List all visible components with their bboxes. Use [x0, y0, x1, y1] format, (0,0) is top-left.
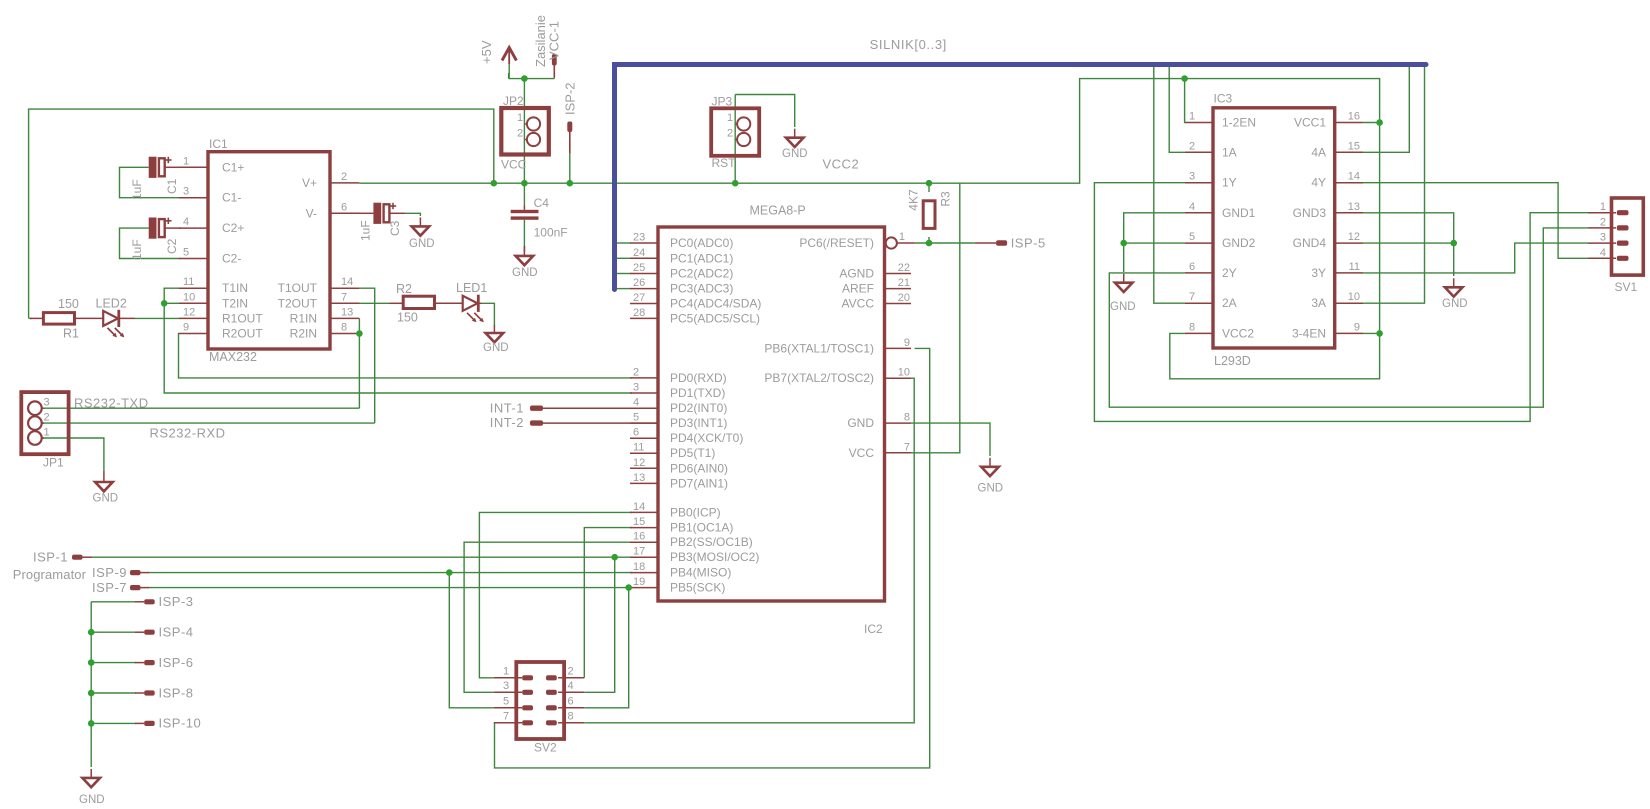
junction VCC rail at JP3: [732, 180, 739, 187]
capacitor C2: [149, 218, 157, 239]
svg-text:7: 7: [341, 291, 347, 303]
svg-text:1uF: 1uF: [359, 220, 373, 241]
svg-text:C1+: C1+: [222, 160, 244, 174]
svg-text:GND: GND: [483, 342, 509, 354]
svg-text:R1IN: R1IN: [290, 311, 317, 325]
SV1 pin stubs and contacts: [1588, 212, 1616, 214]
svg-text:2: 2: [517, 128, 523, 140]
wire C1 negative jog: [120, 167, 181, 197]
svg-text:PB4(MISO): PB4(MISO): [670, 566, 731, 580]
ground left of IC3: [1123, 274, 1125, 283]
ground for JP3: [794, 129, 796, 138]
wire T1IN T2IN tie to PD1: [164, 288, 632, 393]
svg-text:16: 16: [1348, 111, 1360, 123]
wire R2OUT to PD0: [179, 334, 633, 378]
svg-text:3: 3: [633, 382, 639, 394]
svg-text:1Y: 1Y: [1222, 176, 1237, 190]
svg-text:PD4(XCK/T0): PD4(XCK/T0): [670, 431, 743, 445]
ground for C3: [419, 217, 421, 226]
junction PB4/ISP-9/SV2.5: [446, 569, 453, 576]
op-amp IC2 MEGA8-P body: [658, 227, 885, 601]
svg-text:INT-1: INT-1: [490, 400, 524, 415]
wire ISP-8 tap: [91, 692, 136, 694]
wire PB0 to SV2 pin1: [479, 512, 632, 677]
svg-text:PB6(XTAL1/TOSC1): PB6(XTAL1/TOSC1): [764, 341, 874, 355]
svg-text:2: 2: [341, 171, 347, 183]
svg-text:28: 28: [633, 307, 645, 319]
svg-text:C2-: C2-: [222, 252, 241, 266]
svg-text:C1: C1: [165, 178, 179, 194]
svg-text:11: 11: [183, 276, 194, 288]
IC2 pin 1 PC6(/RESET) with bubble: [886, 237, 897, 248]
wire PB1 to SV2 pin2: [584, 528, 632, 678]
svg-text:4: 4: [633, 397, 639, 409]
svg-text:8: 8: [568, 710, 574, 722]
svg-text:9: 9: [1354, 321, 1360, 333]
svg-text:4: 4: [1600, 247, 1606, 259]
wire VCC left loop from R1 net to junction: [29, 109, 494, 318]
svg-text:12: 12: [633, 457, 645, 469]
svg-text:ISP-7: ISP-7: [92, 580, 127, 595]
pin INT-1: [530, 406, 543, 411]
svg-text:PD3(INT1): PD3(INT1): [670, 416, 727, 430]
svg-text:C3: C3: [388, 220, 402, 236]
svg-text:24: 24: [633, 247, 645, 259]
op-amp IC3 L293D body: [1213, 108, 1335, 348]
svg-text:7: 7: [503, 710, 509, 722]
svg-text:R1OUT: R1OUT: [222, 311, 263, 325]
svg-text:14: 14: [633, 501, 645, 513]
svg-text:2: 2: [727, 128, 733, 140]
svg-text:9: 9: [904, 337, 910, 349]
svg-text:2Y: 2Y: [1222, 266, 1237, 280]
svg-text:VCC2: VCC2: [823, 157, 860, 172]
svg-text:V-: V-: [306, 206, 317, 220]
svg-text:LED2: LED2: [96, 297, 127, 311]
pin ISP-9: [130, 570, 141, 575]
svg-text:ISP-10: ISP-10: [159, 716, 202, 731]
svg-text:2: 2: [1600, 216, 1606, 228]
svg-text:15: 15: [1348, 140, 1360, 152]
junction IC3 VCC1: [1376, 119, 1383, 126]
pin ISP-6: [135, 662, 144, 664]
wire SV2 pin5 riser to PB4: [449, 573, 494, 708]
svg-text:PB5(SCK): PB5(SCK): [670, 581, 725, 595]
ground for IC2 pin8: [989, 458, 991, 467]
junction ISP-8 tap: [88, 690, 95, 697]
LED LED1: [463, 296, 478, 311]
svg-text:GND4: GND4: [1293, 236, 1327, 250]
connector JP3 body: [711, 108, 759, 156]
svg-text:VCC-1: VCC-1: [547, 21, 562, 60]
wire VCC-1 pin drop: [553, 68, 555, 79]
svg-text:1: 1: [727, 112, 733, 124]
ground for C4: [523, 246, 525, 256]
svg-text:R1: R1: [63, 327, 79, 341]
svg-text:Programator: Programator: [13, 567, 87, 582]
svg-text:T2IN: T2IN: [222, 296, 248, 310]
svg-text:PB0(ICP): PB0(ICP): [670, 505, 721, 519]
svg-text:PB1(OC1A): PB1(OC1A): [670, 521, 733, 535]
wire ISP-2 drop: [569, 153, 571, 183]
junction top rail: [521, 75, 528, 82]
junction PB5/ISP-7/SV2.6: [625, 584, 632, 591]
wire ISP-3 tap: [91, 601, 136, 603]
wire LED1 to GND: [481, 303, 494, 326]
wire main VCC horizontal rail: [359, 79, 1379, 379]
svg-text:PC5(ADC5/SCL): PC5(ADC5/SCL): [670, 311, 760, 325]
IC3 left pin stubs: [1185, 122, 1213, 124]
svg-text:JP3: JP3: [712, 95, 733, 109]
svg-text:VCC1: VCC1: [1294, 116, 1326, 130]
svg-text:3-4EN: 3-4EN: [1292, 326, 1326, 340]
svg-text:MAX232: MAX232: [209, 350, 257, 364]
svg-text:7: 7: [904, 441, 910, 453]
wire T2OUT to R2: [359, 302, 390, 304]
wire IC3 GND1 GND2 to ground: [1124, 213, 1185, 272]
wire PB2 to SV2 pin3: [464, 542, 632, 692]
svg-text:12: 12: [183, 306, 195, 318]
wire T1OUT riser: [359, 288, 374, 423]
resistor R1: [43, 313, 74, 325]
wire bus tap PC2: [616, 273, 631, 275]
svg-text:R2IN: R2IN: [290, 327, 317, 341]
svg-text:GND: GND: [512, 267, 538, 279]
svg-text:19: 19: [633, 576, 645, 588]
svg-text:GND: GND: [409, 238, 435, 250]
svg-text:AREF: AREF: [842, 282, 874, 296]
svg-text:7: 7: [1189, 291, 1195, 303]
svg-text:4Y: 4Y: [1311, 176, 1326, 190]
svg-text:VCC: VCC: [501, 158, 527, 172]
svg-text:C4: C4: [534, 196, 550, 210]
wire 1Y to SV1 pin1: [1094, 183, 1588, 422]
wire C2 negative jog: [120, 228, 181, 258]
pin ISP-4: [135, 631, 144, 633]
svg-text:PD0(RXD): PD0(RXD): [670, 371, 727, 385]
svg-text:ISP-5: ISP-5: [1011, 236, 1046, 251]
junction GND1 GND2: [1120, 240, 1127, 247]
wire ISP-6 tap: [91, 662, 136, 664]
svg-text:ISP-6: ISP-6: [159, 655, 194, 670]
svg-text:1: 1: [1189, 111, 1195, 123]
svg-text:JP1: JP1: [43, 456, 64, 470]
wire bus tap PC0: [616, 242, 631, 244]
junction R3 bottom on RESET: [926, 240, 933, 247]
svg-text:IC1: IC1: [209, 137, 228, 151]
svg-text:JP2: JP2: [503, 94, 524, 108]
svg-text:25: 25: [633, 262, 645, 274]
svg-text:4: 4: [183, 216, 189, 228]
wire 3Y to SV1 pin3: [1363, 243, 1588, 273]
svg-text:3: 3: [1189, 171, 1195, 183]
pin ISP-1: [72, 555, 83, 560]
svg-text:GND: GND: [847, 416, 874, 430]
ground for LED1: [493, 325, 495, 333]
svg-text:T2OUT: T2OUT: [278, 296, 318, 310]
wire JP1 pin1 to GND: [42, 438, 104, 471]
svg-text:RS232-TXD: RS232-TXD: [74, 396, 149, 411]
wire R3 bottom to RESET net: [928, 237, 930, 243]
svg-text:PB7(XTAL2/TOSC2): PB7(XTAL2/TOSC2): [764, 371, 874, 385]
svg-text:3: 3: [44, 397, 50, 409]
svg-text:+5V: +5V: [479, 40, 494, 64]
svg-text:150: 150: [58, 297, 79, 311]
svg-text:13: 13: [341, 306, 353, 318]
IC2 right pin stubs, numbers and names: [885, 273, 912, 275]
wire IC3 3A from bus: [1363, 67, 1425, 304]
svg-text:100nF: 100nF: [534, 226, 568, 240]
svg-text:5: 5: [1189, 231, 1195, 243]
wire ISP-4 tap: [91, 631, 136, 633]
junction PB3/ISP-1/SV2.4: [611, 554, 618, 561]
svg-text:27: 27: [633, 292, 645, 304]
svg-text:26: 26: [633, 277, 645, 289]
wire IC3 3-4EN link: [1363, 332, 1380, 334]
pin ISP-10: [135, 722, 144, 724]
wire PB7 to SV2 pin8: [584, 378, 914, 723]
svg-text:10: 10: [183, 291, 195, 303]
pin ISP-2: [567, 122, 572, 133]
svg-text:22: 22: [898, 262, 910, 274]
svg-text:6: 6: [1189, 261, 1195, 273]
svg-text:PD6(AIN0): PD6(AIN0): [670, 461, 728, 475]
svg-text:RS232-RXD: RS232-RXD: [150, 426, 226, 441]
junction ISP-10 tap: [88, 720, 95, 727]
svg-text:1: 1: [44, 427, 50, 439]
wire bus tap PC3: [616, 288, 631, 290]
wire ISP-9 / PB4 row: [148, 572, 632, 574]
wire IC3 GND4 row: [1363, 242, 1454, 244]
svg-text:ISP-2: ISP-2: [563, 82, 578, 115]
IC1 pin stubs left: [179, 166, 208, 168]
svg-text:3Y: 3Y: [1311, 266, 1326, 280]
svg-text:17: 17: [633, 546, 645, 558]
resistor R2: [403, 296, 434, 308]
svg-text:PD7(AIN1): PD7(AIN1): [670, 476, 728, 490]
svg-text:MEGA8-P: MEGA8-P: [750, 204, 806, 218]
svg-text:18: 18: [633, 561, 645, 573]
junction R3 top: [926, 180, 933, 187]
wire R3 top to VCC rail: [928, 183, 930, 192]
svg-text:10: 10: [1348, 291, 1360, 303]
svg-text:IC2: IC2: [864, 622, 883, 636]
ground right of IC3: [1453, 278, 1455, 287]
svg-text:AGND: AGND: [839, 267, 874, 281]
wire IC2 GND pin8 to ground: [911, 423, 990, 456]
svg-text:PB2(SS/OC1B): PB2(SS/OC1B): [670, 535, 753, 549]
svg-text:C1-: C1-: [222, 191, 241, 205]
wire R1 feed: [29, 317, 32, 319]
wire SV2 pin6 riser to PB5: [584, 588, 629, 708]
svg-text:23: 23: [633, 232, 645, 244]
capacitor C4: [511, 210, 539, 213]
wire ISP-7 / PB5 row: [148, 587, 632, 589]
svg-text:ISP-1: ISP-1: [33, 550, 68, 565]
svg-text:4: 4: [1189, 201, 1195, 213]
wire RESET row to ISP-5: [915, 242, 975, 244]
svg-text:21: 21: [898, 277, 910, 289]
junction IC3 1-2EN riser: [1181, 75, 1188, 82]
svg-text:1A: 1A: [1222, 145, 1237, 159]
junction GND3 GND4: [1450, 240, 1457, 247]
svg-text:14: 14: [1348, 171, 1360, 183]
junction VCC rail at ISP-2: [567, 180, 574, 187]
wire IC3 1A from bus: [1169, 67, 1185, 153]
pin ISP-7: [130, 585, 141, 590]
svg-text:GND3: GND3: [1293, 206, 1327, 220]
svg-text:3: 3: [1600, 232, 1606, 244]
connector JP2 body: [501, 108, 549, 155]
wire R1IN/R2IN riser: [358, 318, 360, 408]
svg-text:1: 1: [1600, 201, 1606, 213]
svg-text:PC0(ADC0): PC0(ADC0): [670, 236, 733, 250]
svg-text:SV2: SV2: [534, 741, 557, 755]
ground for JP1: [103, 471, 105, 482]
wire T2IN stub link: [164, 302, 179, 304]
svg-text:GND: GND: [79, 794, 105, 806]
svg-text:IC3: IC3: [1214, 92, 1233, 106]
svg-text:1uF: 1uF: [130, 239, 144, 260]
svg-text:GND2: GND2: [1222, 236, 1256, 250]
wire JP3 riser: [734, 95, 736, 184]
svg-text:6: 6: [341, 201, 347, 213]
svg-text:VCC: VCC: [849, 446, 875, 460]
junction VCC rail at IC1 V+: [491, 180, 498, 187]
op-amp IC1 MAX232 body: [208, 152, 330, 349]
svg-text:V+: V+: [302, 176, 317, 190]
svg-text:T1OUT: T1OUT: [278, 281, 318, 295]
junction ISP-6 tap: [88, 659, 95, 666]
svg-text:ISP-9: ISP-9: [92, 565, 127, 580]
pin ISP-5: [975, 242, 996, 244]
junction R2IN: [356, 330, 363, 337]
svg-text:GND: GND: [93, 493, 119, 505]
wire IC3 1-2EN to VCC: [1184, 79, 1186, 123]
svg-text:2: 2: [1189, 140, 1195, 152]
wire 2Y to SV1 pin2: [1109, 228, 1588, 407]
svg-text:12: 12: [1348, 231, 1360, 243]
svg-text:4K7: 4K7: [907, 189, 921, 211]
IC1 pin stubs right: [330, 182, 359, 184]
IC3 right pin stubs: [1335, 122, 1363, 124]
svg-text:PC3(ADC3): PC3(ADC3): [670, 282, 733, 296]
svg-text:R3: R3: [939, 191, 953, 207]
LED LED2: [103, 311, 118, 326]
bus SILNIK[0..3]: [615, 65, 1427, 290]
svg-text:VCC2: VCC2: [1222, 326, 1254, 340]
svg-text:13: 13: [633, 472, 645, 484]
svg-text:R2: R2: [396, 282, 412, 296]
svg-text:1: 1: [517, 112, 523, 124]
svg-text:PC4(ADC4/SDA): PC4(ADC4/SDA): [670, 297, 761, 311]
svg-text:ISP-3: ISP-3: [159, 594, 194, 609]
capacitor C1: [149, 157, 157, 178]
svg-text:20: 20: [898, 292, 910, 304]
wire VCC riser from IC2 pin7: [911, 183, 960, 453]
IC2 left pin stubs, numbers and names: [630, 242, 658, 244]
junction VCC rail at JP2: [521, 180, 528, 187]
wire PB6 to SV2 pin7: [495, 348, 930, 768]
svg-text:8: 8: [1189, 321, 1195, 333]
svg-text:GND1: GND1: [1222, 206, 1256, 220]
svg-text:1: 1: [503, 665, 509, 677]
svg-text:PC1(ADC1): PC1(ADC1): [670, 251, 733, 265]
svg-text:PD2(INT0): PD2(INT0): [670, 401, 727, 415]
wire +5V stem lower: [508, 73, 510, 79]
pin VCC-1 (Zasilanie): [552, 54, 557, 66]
svg-text:4: 4: [568, 680, 574, 692]
wire IC3 4A from bus: [1363, 67, 1409, 153]
svg-text:ISP-4: ISP-4: [159, 625, 194, 640]
connector SV1 body: [1612, 198, 1644, 275]
power +5V symbol: [502, 48, 516, 61]
svg-text:3A: 3A: [1311, 296, 1326, 310]
wire C3 to GND: [404, 213, 420, 216]
svg-text:GND: GND: [978, 483, 1004, 495]
wire bus tap PC1: [616, 257, 631, 259]
svg-text:LED1: LED1: [456, 281, 487, 295]
wire ISP-10 tap: [91, 722, 136, 724]
svg-text:5: 5: [183, 247, 189, 259]
wire SV2 pin4 riser to PB3: [584, 557, 615, 692]
svg-text:INT-2: INT-2: [490, 415, 524, 430]
svg-text:3: 3: [183, 186, 189, 198]
wire +5V to VCC-1 top rail: [509, 78, 555, 80]
svg-text:AVCC: AVCC: [842, 297, 875, 311]
svg-text:13: 13: [1348, 201, 1360, 213]
svg-text:5: 5: [633, 412, 639, 424]
svg-text:6: 6: [633, 427, 639, 439]
svg-text:10: 10: [898, 367, 910, 379]
svg-text:6: 6: [568, 695, 574, 707]
svg-text:GND: GND: [1110, 301, 1136, 313]
capacitor C3: [373, 203, 381, 224]
wire JP2 riser: [523, 79, 525, 184]
svg-text:3: 3: [503, 680, 509, 692]
wire LED2 to R1OUT: [134, 317, 179, 319]
svg-text:1uF: 1uF: [130, 179, 144, 200]
JP3 pin circles: [737, 117, 750, 130]
svg-text:14: 14: [341, 276, 353, 288]
svg-text:GND: GND: [782, 148, 808, 160]
wire RS232-TXD row: [42, 407, 359, 409]
SV2 pin stubs and contacts: [494, 677, 522, 679]
svg-text:1: 1: [899, 231, 905, 243]
svg-text:RST: RST: [712, 156, 737, 170]
wire IC3 GND2 row: [1124, 242, 1185, 244]
wire JP3 pin1 to GND: [735, 95, 795, 128]
svg-text:T1IN: T1IN: [222, 281, 248, 295]
svg-text:L293D: L293D: [1214, 354, 1251, 368]
ground for ISP column: [90, 769, 92, 778]
pin INT-2: [530, 420, 543, 425]
JP2 pin circles: [527, 117, 540, 130]
svg-text:PC2(ADC2): PC2(ADC2): [670, 267, 733, 281]
svg-text:R2OUT: R2OUT: [222, 327, 263, 341]
svg-text:11: 11: [633, 442, 644, 454]
svg-text:2A: 2A: [1222, 296, 1237, 310]
svg-text:16: 16: [633, 531, 645, 543]
wire IC3 VCC1 link: [1363, 122, 1380, 124]
pin ISP-3: [135, 601, 144, 603]
svg-text:C2+: C2+: [222, 221, 244, 235]
svg-text:SILNIK[0..3]: SILNIK[0..3]: [870, 37, 947, 52]
svg-text:ISP-8: ISP-8: [159, 685, 194, 700]
pin ISP-8: [135, 692, 144, 694]
JP1 pin circles: [28, 401, 42, 415]
svg-text:150: 150: [397, 311, 418, 325]
